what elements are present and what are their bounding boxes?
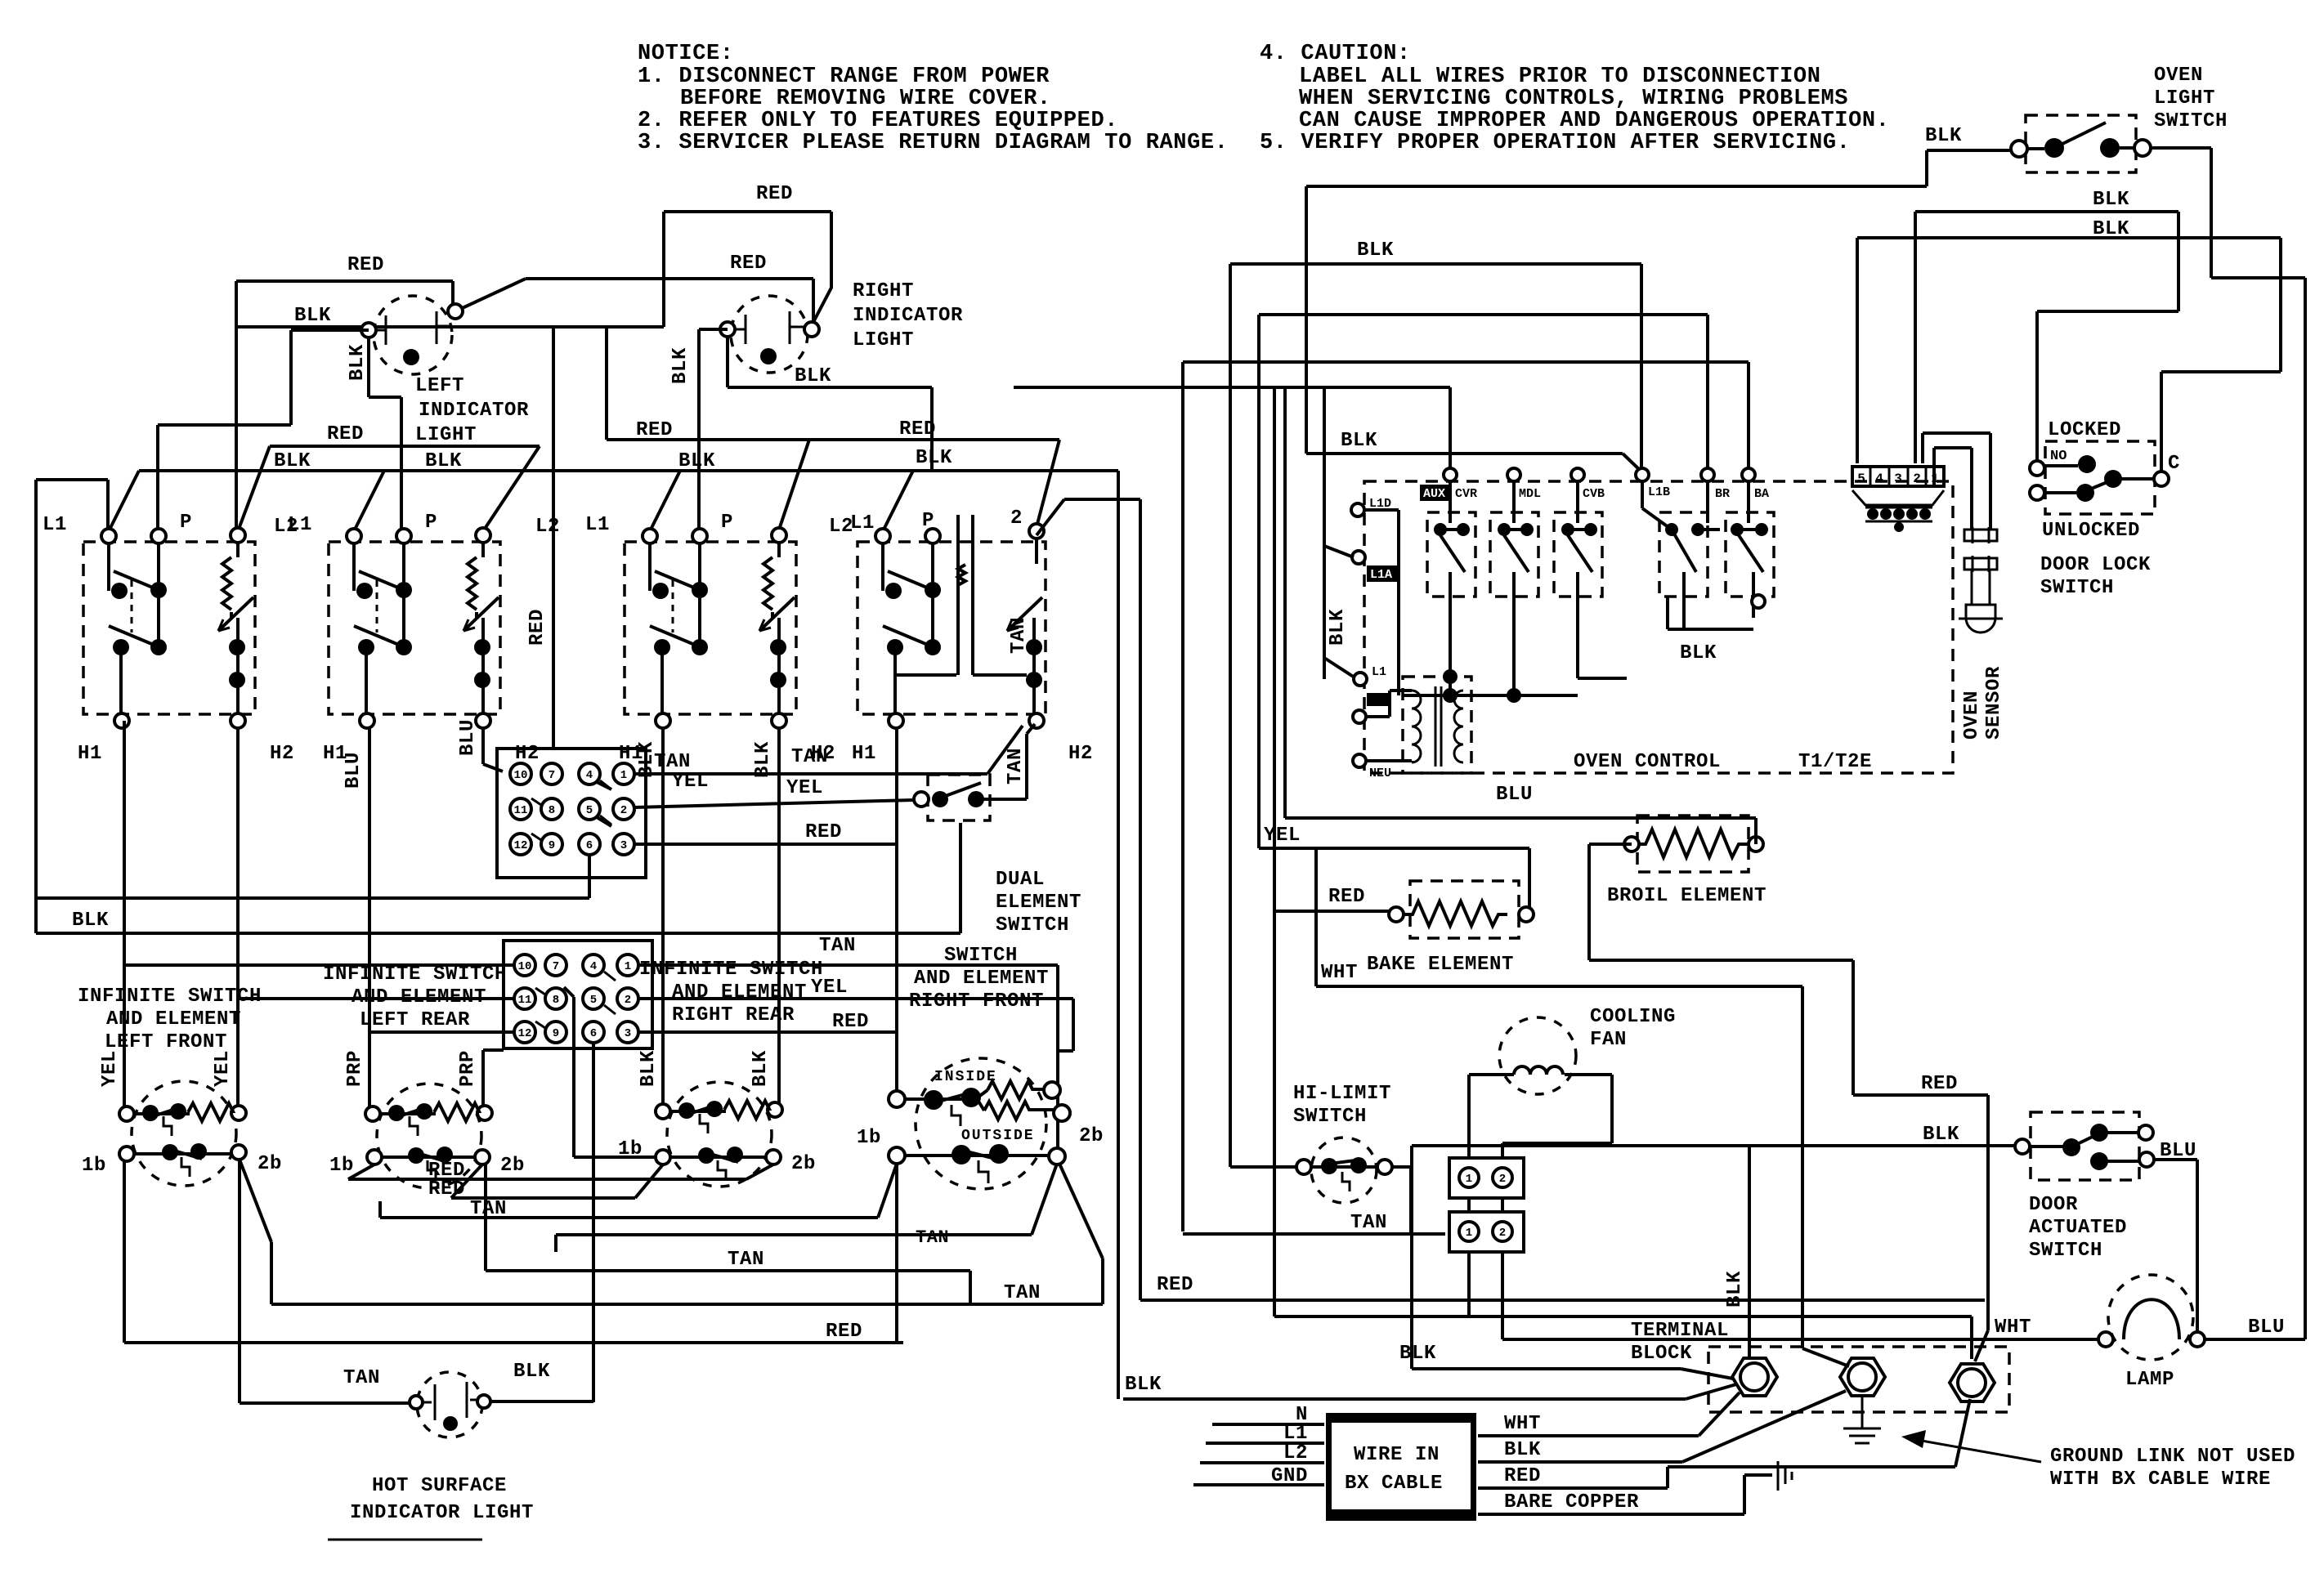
svg-text:BLK: BLK: [2093, 218, 2129, 240]
connector block 1: [497, 749, 646, 878]
svg-text:HI-LIMIT: HI-LIMIT: [1293, 1083, 1391, 1105]
svg-text:T1/T2E: T1/T2E: [1798, 751, 1872, 773]
svg-text:9: 9: [549, 839, 555, 852]
svg-text:BLK: BLK: [795, 365, 831, 387]
svg-text:LEFT REAR: LEFT REAR: [360, 1009, 470, 1031]
wire broil left to door area: [1589, 844, 1988, 1361]
svg-text:TAN: TAN: [1004, 1282, 1041, 1304]
wire S4 lower-left vertical down: [895, 1164, 898, 1343]
svg-text:INSIDE: INSIDE: [934, 1069, 997, 1085]
svg-text:BLK: BLK: [750, 1050, 772, 1087]
svg-text:8: 8: [549, 804, 555, 817]
bx cable WHT wire: [1478, 1392, 1740, 1436]
left indicator light: [361, 296, 463, 374]
ground under nut2: [1843, 1396, 1881, 1443]
svg-text:H1: H1: [78, 743, 102, 765]
switch unit 3: [585, 512, 853, 765]
svg-text:BLK: BLK: [1504, 1439, 1541, 1461]
wire broil right up: [1754, 818, 1758, 844]
svg-text:2: 2: [1010, 507, 1023, 530]
wire H1-2 vertical: [368, 728, 371, 1114]
svg-text:4: 4: [586, 769, 593, 782]
svg-text:SWITCH: SWITCH: [996, 914, 1069, 936]
svg-text:4: 4: [1875, 472, 1883, 486]
wire BLK column to nut1: [1412, 1146, 1733, 1379]
svg-text:RED: RED: [327, 423, 364, 445]
wire RED y400: [236, 325, 664, 329]
svg-text:RED: RED: [1328, 886, 1365, 908]
svg-text:LABEL ALL WIRES PRIOR TO DISCO: LABEL ALL WIRES PRIOR TO DISCONNECTION: [1299, 65, 1821, 89]
svg-text:ELEMENT: ELEMENT: [996, 892, 1081, 914]
svg-text:RED: RED: [526, 609, 549, 646]
wire RED bus 1591: [1140, 1299, 1985, 1302]
fan connector block lower: [1449, 1212, 1524, 1252]
svg-text:L1: L1: [1372, 665, 1386, 679]
svg-text:L2: L2: [535, 516, 560, 538]
svg-text:5: 5: [586, 804, 593, 817]
svg-text:CAN CAUSE IMPROPER AND DANGERO: CAN CAUSE IMPROPER AND DANGEROUS OPERATI…: [1299, 109, 1890, 133]
svg-text:DUAL: DUAL: [996, 869, 1045, 891]
svg-text:NO: NO: [2050, 449, 2067, 464]
svg-text:INFINITE SWITCH: INFINITE SWITCH: [639, 959, 823, 981]
wire pin5 stub: [597, 817, 611, 826]
wire right-ind left terminal to P3: [699, 329, 728, 530]
svg-text:DOOR LOCK: DOOR LOCK: [2040, 554, 2151, 576]
svg-text:AND ELEMENT: AND ELEMENT: [914, 968, 1049, 990]
switch unit 1: [43, 512, 298, 765]
infinite switch S1 (left front): [119, 1081, 246, 1186]
svg-text:LIGHT: LIGHT: [415, 424, 477, 446]
svg-text:LEFT: LEFT: [415, 375, 464, 397]
svg-text:BLK: BLK: [678, 450, 715, 472]
svg-text:HOT SURFACE: HOT SURFACE: [372, 1475, 507, 1497]
wire pin4 YEL: [597, 782, 611, 789]
svg-text:BLK: BLK: [72, 910, 109, 932]
hex nut 1: [1732, 1358, 1777, 1396]
wire BLK left-ind to P1: [158, 330, 369, 530]
svg-text:TAN: TAN: [791, 746, 828, 768]
svg-text:BLK: BLK: [1680, 642, 1717, 664]
svg-text:H2: H2: [1068, 743, 1093, 765]
svg-text:H1: H1: [852, 743, 876, 765]
wires connector to oven sensor: [1923, 433, 1990, 530]
svg-text:L1: L1: [585, 514, 610, 536]
wire WHT to lamp: [1502, 1338, 2098, 1341]
wire S1-2b down to hot light: [240, 1160, 416, 1403]
wire pin1 TAN to right vertical: [634, 726, 1023, 774]
wire pin3 RED: [634, 728, 897, 1032]
svg-text:BLOCK: BLOCK: [1631, 1343, 1692, 1365]
part number underline: [328, 1539, 482, 1541]
svg-text:3: 3: [1894, 472, 1902, 486]
wire pin2 YEL: [634, 800, 914, 807]
wire ladder y323: [1230, 264, 1641, 1167]
svg-text:BLK: BLK: [425, 450, 462, 472]
bake element: [1389, 881, 1534, 938]
wire to oven light switch left: [1306, 150, 2011, 186]
svg-text:L1A: L1A: [1370, 568, 1392, 582]
svg-text:BA: BA: [1754, 487, 1769, 501]
svg-text:BLK: BLK: [1357, 239, 1394, 261]
wire vertical x1559: [1273, 387, 1276, 1316]
wire left vertical x1620 with diagonals: [1324, 387, 1355, 679]
svg-text:RED: RED: [347, 254, 384, 276]
relay contacts: [1434, 481, 1627, 703]
oven sensor: [1959, 527, 2003, 633]
wire fan pin1 down to bus: [1467, 1252, 1471, 1316]
wire S2-2b down and bus 1555: [486, 1164, 970, 1304]
svg-text:BLK: BLK: [1341, 430, 1377, 452]
svg-text:DOOR: DOOR: [2029, 1194, 2078, 1216]
wire pin2 YEL right: [638, 999, 1073, 1051]
svg-text:BLK: BLK: [752, 741, 774, 778]
wire bus 1611: [1274, 1316, 1972, 1359]
wire in bx cable box: [1326, 1413, 1476, 1521]
svg-text:TAN: TAN: [470, 1198, 507, 1220]
wire door switch to lamp: [2154, 1160, 2197, 1332]
wire fan pin2 down to WHT lamp line: [1501, 1252, 1504, 1339]
svg-text:INDICATOR: INDICATOR: [853, 305, 963, 327]
bx cable BARE COPPER wire: [1478, 1475, 1772, 1514]
svg-text:7: 7: [553, 960, 559, 973]
L1B BR BA relay contacts: [1642, 481, 1768, 629]
svg-text:9: 9: [553, 1027, 559, 1040]
svg-text:YEL: YEL: [811, 977, 848, 999]
wire pin1 TAN right: [638, 965, 1058, 1151]
wire H1 verticals down to lower switches: [123, 721, 126, 1114]
svg-text:RED: RED: [756, 183, 793, 205]
svg-text:2b: 2b: [257, 1153, 282, 1175]
switch unit 4 (dual element): [850, 507, 1093, 765]
svg-text:BLK: BLK: [669, 347, 692, 384]
svg-text:2: 2: [1499, 1227, 1506, 1240]
svg-text:YEL: YEL: [786, 777, 823, 799]
svg-text:TAN: TAN: [728, 1249, 764, 1271]
wire AUX vertical: [1449, 387, 1452, 470]
svg-text:INFINITE SWITCH: INFINITE SWITCH: [323, 963, 507, 986]
svg-text:11: 11: [518, 994, 532, 1007]
svg-text:SENSOR: SENSOR: [1983, 666, 2005, 740]
svg-text:RED: RED: [1504, 1465, 1541, 1487]
wire hi-limit right down to tan bus: [1392, 1167, 1411, 1234]
hex nut 3: [1950, 1364, 1995, 1401]
wire right-ind BLK down to blk bus: [728, 337, 932, 471]
svg-text:4: 4: [590, 960, 597, 973]
svg-text:LAMP: LAMP: [2125, 1369, 2174, 1391]
wire S2 right vertical PRP: [483, 1050, 504, 1106]
wires between fan blocks: [1469, 1198, 1502, 1212]
wire red bus 1643: [124, 1161, 903, 1343]
svg-text:RED: RED: [826, 1321, 862, 1343]
svg-text:PRP: PRP: [457, 1050, 479, 1087]
svg-text:BROIL ELEMENT: BROIL ELEMENT: [1607, 885, 1767, 907]
svg-text:11: 11: [514, 804, 528, 817]
svg-text:BLK: BLK: [1925, 125, 1962, 147]
svg-text:SWITCH: SWITCH: [2154, 110, 2228, 132]
wire YEL bus: [1259, 848, 1529, 907]
wire RED center vertical to connector pin7: [552, 327, 555, 749]
oven light switch: [2011, 115, 2151, 172]
wire vertical x1598 BLK to L1B: [1306, 186, 1642, 472]
connector block 2: [504, 941, 652, 1048]
svg-text:3: 3: [620, 839, 627, 852]
wire hot light right to pin6: [490, 1400, 593, 1403]
svg-text:NOTICE:: NOTICE:: [638, 42, 734, 66]
svg-text:P: P: [922, 510, 934, 532]
door lock switch: [2030, 441, 2169, 514]
wire S4 lower-right diagonals: [556, 1164, 1057, 1252]
bx cable left stubs: [1193, 1424, 1324, 1485]
right indicator light: [720, 296, 819, 373]
small black box under L1: [1367, 693, 1388, 706]
svg-text:1: 1: [1466, 1173, 1472, 1186]
wire hi-limit left stub: [1230, 1165, 1296, 1169]
svg-text:TAN: TAN: [1008, 617, 1030, 654]
svg-text:8: 8: [553, 994, 559, 1007]
svg-text:YEL: YEL: [672, 771, 709, 793]
svg-text:4. CAUTION:: 4. CAUTION:: [1260, 42, 1411, 66]
relay dashed boxes: [1427, 512, 1774, 597]
svg-text:CVR: CVR: [1455, 487, 1477, 501]
svg-text:LOCKED: LOCKED: [2048, 419, 2121, 441]
cooling fan: [1469, 1017, 1612, 1158]
svg-text:BLU: BLU: [343, 752, 365, 789]
wire pin10 left to S1: [124, 963, 514, 967]
svg-text:3: 3: [625, 1027, 631, 1040]
wire vertical x1610: [1314, 848, 1318, 986]
svg-text:BAKE ELEMENT: BAKE ELEMENT: [1367, 954, 1514, 976]
wire lamp right BLU: [2205, 1338, 2305, 1341]
svg-text:1: 1: [625, 960, 631, 973]
svg-text:WHEN SERVICING CONTROLS, WIRIN: WHEN SERVICING CONTROLS, WIRING PROBLEMS: [1299, 87, 1848, 111]
svg-text:FAN: FAN: [1590, 1029, 1627, 1051]
svg-text:RED: RED: [1921, 1073, 1958, 1095]
oven control box: [1364, 481, 1953, 773]
wire H2-1 vertical: [236, 728, 240, 1113]
svg-text:LEFT FRONT: LEFT FRONT: [105, 1031, 227, 1053]
wire 2-terminal to x1395 vertical: [1037, 499, 1140, 1300]
svg-text:SWITCH: SWITCH: [2029, 1240, 2102, 1262]
svg-text:TAN: TAN: [916, 1227, 949, 1248]
wire blu H2-2 to pin10: [483, 728, 503, 771]
label L1A black box: [1367, 565, 1398, 582]
svg-text:INDICATOR: INDICATOR: [419, 400, 529, 422]
svg-text:WHT: WHT: [1504, 1413, 1541, 1435]
wire ladder y474: [1014, 386, 1450, 389]
svg-text:BARE COPPER: BARE COPPER: [1504, 1491, 1639, 1513]
wire pin6 down-left to outer loop: [36, 855, 589, 898]
caution text block: [1260, 42, 1890, 155]
connector 54321: [1852, 467, 1944, 532]
svg-text:SWITCH: SWITCH: [1293, 1106, 1367, 1128]
svg-text:YEL: YEL: [1264, 825, 1301, 847]
svg-text:RIGHT: RIGHT: [853, 280, 914, 302]
svg-text:1: 1: [1466, 1227, 1472, 1240]
svg-text:MDL: MDL: [1519, 487, 1541, 501]
door actuated switch: [2015, 1112, 2154, 1180]
svg-text:NEU: NEU: [1369, 767, 1391, 780]
svg-text:H2: H2: [515, 743, 540, 765]
wire L1D to bus: [1364, 510, 1399, 695]
svg-text:INDICATOR LIGHT: INDICATOR LIGHT: [350, 1502, 534, 1524]
svg-text:5: 5: [590, 994, 597, 1007]
svg-text:INFINITE SWITCH: INFINITE SWITCH: [78, 986, 262, 1008]
svg-text:ACTUATED: ACTUATED: [2029, 1217, 2127, 1239]
svg-text:CVB: CVB: [1583, 487, 1605, 501]
svg-text:WHT: WHT: [1321, 962, 1358, 984]
svg-text:PRP: PRP: [344, 1050, 366, 1087]
wire pin11 left: [238, 997, 514, 1000]
hex nut 2: [1840, 1358, 1885, 1396]
svg-text:1b: 1b: [329, 1155, 354, 1177]
svg-text:YEL: YEL: [212, 1050, 234, 1087]
broil element: [1624, 816, 1763, 872]
svg-text:OVEN: OVEN: [1961, 691, 1983, 740]
ground link arrow: [1908, 1438, 2041, 1462]
svg-text:2: 2: [1499, 1173, 1506, 1186]
wire RED2 diagonal and run to right indicator: [455, 279, 813, 324]
svg-text:BLU: BLU: [2248, 1316, 2285, 1339]
svg-text:6: 6: [590, 1027, 597, 1040]
svg-text:BLU: BLU: [1496, 784, 1533, 806]
dual element switch: [914, 724, 1035, 820]
wire RED braid pair A: [238, 446, 540, 531]
svg-text:BLK: BLK: [513, 1361, 550, 1383]
svg-text:10: 10: [518, 960, 532, 973]
svg-text:RIGHT REAR: RIGHT REAR: [672, 1004, 795, 1026]
svg-text:BLK: BLK: [274, 450, 311, 472]
svg-text:TAN: TAN: [1005, 748, 1027, 784]
oven control top terminals: [1444, 468, 1755, 481]
wire pin12 left: [369, 1030, 514, 1034]
wire BLK bus to door switch: [1412, 1146, 2016, 1357]
svg-text:BLK: BLK: [636, 741, 658, 778]
svg-text:SWITCH: SWITCH: [944, 945, 1018, 967]
svg-text:WIRE IN: WIRE IN: [1354, 1444, 1440, 1466]
svg-text:5. VERIFY PROPER OPERATION AFT: 5. VERIFY PROPER OPERATION AFTER SERVICI…: [1260, 131, 1851, 155]
svg-text:WITH BX CABLE WIRE: WITH BX CABLE WIRE: [2050, 1468, 2271, 1491]
svg-text:10: 10: [514, 769, 528, 782]
wire RED1 y344: [236, 281, 453, 306]
svg-text:2: 2: [625, 994, 631, 1007]
svg-text:7: 7: [549, 769, 555, 782]
svg-text:L1B: L1B: [1648, 485, 1670, 499]
notice text block: [638, 42, 1229, 155]
hot surface indicator light: [410, 1372, 490, 1437]
svg-text:12: 12: [514, 839, 528, 852]
svg-text:BLK: BLK: [2093, 189, 2129, 211]
svg-text:BLK: BLK: [347, 344, 369, 381]
infinite switch S2 (left rear): [365, 1084, 492, 1188]
terminal block dashed box: [1708, 1347, 2009, 1412]
switch unit 2: [288, 512, 560, 765]
svg-text:2b: 2b: [791, 1153, 816, 1175]
svg-text:BLK: BLK: [638, 1050, 660, 1087]
svg-text:SWITCH: SWITCH: [2040, 577, 2114, 599]
svg-text:2: 2: [620, 804, 627, 817]
wire H2-3 vertical: [777, 728, 781, 1110]
infinite switch S3 (right rear): [656, 1082, 782, 1187]
wire RED vertical x289 to L2-1: [235, 281, 238, 530]
svg-text:OVEN CONTROL: OVEN CONTROL: [1574, 751, 1721, 773]
lamp: [2098, 1275, 2205, 1360]
svg-text:L2: L2: [1283, 1442, 1308, 1464]
wire BLU bus: [1285, 816, 1756, 820]
bx cable RED wire: [1478, 1399, 1970, 1488]
svg-text:L1: L1: [43, 514, 67, 536]
wire S2 1b/2b legs to red buses: [348, 1164, 773, 1179]
svg-text:BLK: BLK: [1327, 609, 1349, 646]
svg-text:2b: 2b: [1079, 1125, 1104, 1147]
svg-text:1. DISCONNECT RANGE FROM POWER: 1. DISCONNECT RANGE FROM POWER: [638, 65, 1050, 89]
transformer: [1366, 677, 1471, 773]
svg-text:H2: H2: [270, 743, 294, 765]
svg-text:1b: 1b: [618, 1138, 643, 1160]
wire RED to bake: [1274, 910, 1390, 913]
wire pin6 down to hot surface light: [592, 1043, 595, 1402]
svg-text:BLK: BLK: [1724, 1271, 1746, 1307]
svg-text:BLK: BLK: [1399, 1343, 1436, 1365]
svg-text:L1: L1: [850, 512, 875, 534]
wire BLK bus y576: [109, 471, 1118, 1399]
oven control bottom bus: [1402, 694, 1578, 697]
wire BLK bus hC: [1857, 238, 2281, 472]
svg-text:BEFORE REMOVING WIRE COVER.: BEFORE REMOVING WIRE COVER.: [680, 87, 1051, 111]
svg-text:WHT: WHT: [1995, 1316, 2031, 1339]
svg-text:TAN: TAN: [819, 935, 856, 957]
svg-text:TAN: TAN: [343, 1367, 380, 1389]
hi-limit switch: [1296, 1138, 1392, 1203]
svg-text:2. REFER ONLY TO FEATURES EQUI: 2. REFER ONLY TO FEATURES EQUIPPED.: [638, 109, 1118, 133]
svg-text:3. SERVICER PLEASE RETURN DIAG: 3. SERVICER PLEASE RETURN DIAGRAM TO RAN…: [638, 131, 1229, 155]
svg-text:2: 2: [1913, 472, 1921, 486]
svg-text:BLK: BLK: [1923, 1124, 1959, 1146]
svg-text:RED: RED: [636, 419, 673, 441]
svg-text:RED: RED: [730, 253, 767, 275]
wire BLK left-ind to P2: [369, 337, 401, 530]
svg-text:RED: RED: [1157, 1274, 1193, 1296]
svg-text:OUTSIDE: OUTSIDE: [961, 1128, 1035, 1144]
wire tan bus to S4 lower-left: [380, 1164, 897, 1218]
wire ladder y385: [1259, 315, 1708, 848]
svg-text:5: 5: [1857, 472, 1865, 486]
bx cable BLK wire: [1478, 1391, 1846, 1462]
wire pin3 RED right: [638, 1032, 897, 1092]
svg-text:12: 12: [518, 1027, 532, 1040]
svg-text:AUX: AUX: [1423, 487, 1445, 501]
wire red bus 2: [451, 1164, 663, 1198]
svg-text:1b: 1b: [857, 1127, 881, 1149]
wire RED top loop: [664, 212, 831, 327]
svg-text:BLK: BLK: [294, 305, 331, 327]
svg-text:L1: L1: [1283, 1423, 1308, 1445]
wire TAN bus 1510: [1183, 1232, 1445, 1236]
svg-text:RIGHT FRONT: RIGHT FRONT: [909, 990, 1044, 1012]
svg-text:TAN: TAN: [1350, 1212, 1387, 1234]
wire vertical x1572 to BLU: [1283, 387, 1287, 818]
svg-text:BLU: BLU: [457, 719, 479, 756]
svg-text:RED: RED: [428, 1178, 465, 1200]
wire outer left loop: [36, 480, 960, 933]
svg-text:BX CABLE: BX CABLE: [1345, 1473, 1443, 1495]
svg-text:L1: L1: [288, 514, 312, 536]
fan connector block upper: [1449, 1158, 1524, 1198]
svg-text:RED: RED: [805, 821, 842, 843]
svg-text:COOLING: COOLING: [1590, 1006, 1676, 1028]
svg-text:P: P: [721, 512, 733, 534]
oven control left terminals: [1351, 503, 1367, 767]
svg-text:GND: GND: [1271, 1465, 1308, 1487]
